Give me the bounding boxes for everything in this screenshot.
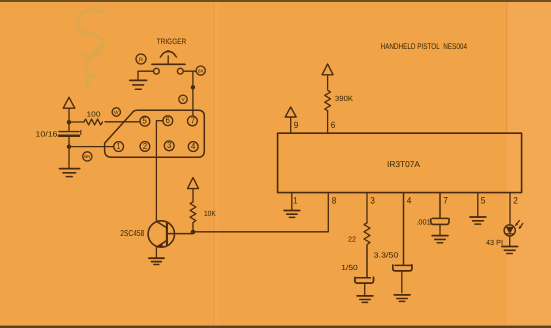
- svg-text:10K: 10K: [204, 209, 216, 218]
- svg-text:5: 5: [142, 116, 146, 126]
- svg-text:1: 1: [117, 141, 121, 151]
- svg-text:BN: BN: [84, 154, 90, 159]
- svg-text:8: 8: [332, 195, 337, 205]
- svg-text:HANDHELD PISTOL NES004: HANDHELD PISTOL NES004: [381, 42, 468, 51]
- svg-text:390K: 390K: [335, 94, 353, 103]
- svg-text:6: 6: [331, 120, 336, 130]
- svg-text:7: 7: [443, 195, 448, 205]
- svg-text:3.3/50: 3.3/50: [374, 250, 399, 259]
- svg-text:.001: .001: [416, 218, 431, 227]
- svg-text:W: W: [114, 110, 119, 116]
- svg-text:1/50: 1/50: [341, 263, 358, 272]
- svg-text:7: 7: [191, 115, 195, 125]
- svg-text:2: 2: [513, 195, 518, 205]
- svg-text:6: 6: [166, 115, 170, 125]
- svg-text:R: R: [139, 57, 143, 63]
- svg-text:4: 4: [191, 141, 195, 151]
- svg-text:3: 3: [370, 195, 375, 205]
- svg-text:10/16: 10/16: [36, 130, 58, 139]
- svg-text:2SC458: 2SC458: [120, 228, 144, 238]
- svg-text:BK: BK: [198, 68, 204, 73]
- svg-text:100: 100: [87, 109, 101, 118]
- svg-text:3: 3: [167, 140, 171, 150]
- svg-text:2: 2: [143, 141, 147, 151]
- svg-text:IR3T07A: IR3T07A: [387, 159, 420, 169]
- svg-text:1: 1: [293, 195, 297, 205]
- svg-text:43 PI: 43 PI: [486, 238, 503, 247]
- svg-text:9: 9: [294, 120, 299, 130]
- svg-text:4: 4: [407, 195, 412, 205]
- svg-text:TRIGGER: TRIGGER: [157, 37, 187, 46]
- svg-text:22: 22: [348, 234, 356, 243]
- svg-text:5: 5: [481, 195, 486, 205]
